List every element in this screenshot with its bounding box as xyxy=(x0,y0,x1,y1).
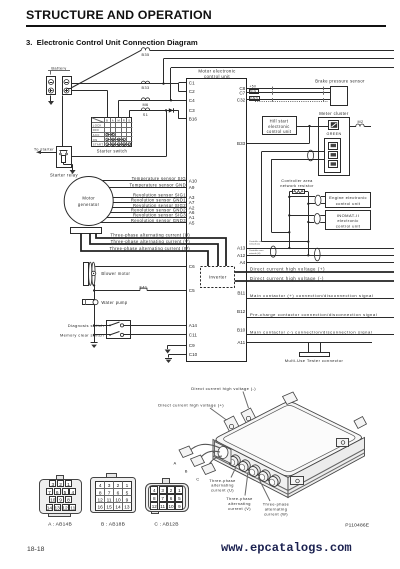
svg-text:A10: A10 xyxy=(189,179,198,184)
svg-text:9: 9 xyxy=(178,504,181,509)
svg-text:A12: A12 xyxy=(237,253,246,258)
svg-text:14: 14 xyxy=(47,506,53,512)
svg-text:F41: F41 xyxy=(140,285,148,290)
svg-text:control unit: control unit xyxy=(336,201,361,206)
svg-text:9: 9 xyxy=(59,498,62,504)
svg-text:Multi-Use Tester connector: Multi-Use Tester connector xyxy=(285,358,344,363)
svg-text:Blower motor: Blower motor xyxy=(101,271,130,276)
svg-text:generator: generator xyxy=(78,202,100,207)
svg-text:INOMAT-II: INOMAT-II xyxy=(337,213,359,218)
svg-text:7: 7 xyxy=(108,490,111,496)
svg-text:B10: B10 xyxy=(237,328,246,333)
svg-text:Starter relay: Starter relay xyxy=(50,172,79,177)
svg-text:S: S xyxy=(128,118,130,122)
svg-text:Controller area: Controller area xyxy=(249,240,264,243)
svg-text:Water pump: Water pump xyxy=(101,300,127,305)
svg-text:5: 5 xyxy=(126,490,129,496)
svg-text:R: R xyxy=(123,118,125,122)
svg-text:control unit: control unit xyxy=(267,129,292,134)
svg-text:C5: C5 xyxy=(189,288,195,293)
svg-text:OFF: OFF xyxy=(93,128,100,132)
svg-text:7: 7 xyxy=(161,496,164,501)
svg-text:13: 13 xyxy=(124,505,130,511)
svg-text:current (U): current (U) xyxy=(211,487,234,492)
svg-text:SIG: SIG xyxy=(250,90,257,94)
svg-text:Temperature sensor SIG: Temperature sensor SIG xyxy=(132,176,186,181)
svg-text:A9: A9 xyxy=(189,185,195,190)
svg-text:2: 2 xyxy=(59,482,62,488)
svg-text:A4: A4 xyxy=(240,260,246,265)
svg-text:4: 4 xyxy=(153,488,156,493)
svg-text:Memory clear switch: Memory clear switch xyxy=(60,333,104,338)
svg-text:9: 9 xyxy=(126,497,129,503)
svg-text:control unit: control unit xyxy=(336,224,361,229)
svg-text:C3: C3 xyxy=(189,108,195,113)
svg-text:4: 4 xyxy=(99,483,102,489)
svg-text:8: 8 xyxy=(153,496,156,501)
svg-text:P110486E: P110486E xyxy=(345,523,370,529)
svg-text:Direct current high voltage (-: Direct current high voltage (-) xyxy=(250,276,324,281)
svg-text:Meter cluster: Meter cluster xyxy=(319,111,349,116)
svg-text:M2: M2 xyxy=(358,120,364,124)
svg-text:11: 11 xyxy=(70,506,75,512)
svg-text:11: 11 xyxy=(107,497,112,503)
svg-text:B33: B33 xyxy=(142,86,150,90)
svg-text:B33: B33 xyxy=(237,141,246,146)
svg-text:Battery: Battery xyxy=(51,66,66,71)
svg-text:current (W): current (W) xyxy=(264,511,288,516)
svg-text:B : AB18B: B : AB18B xyxy=(101,522,125,528)
svg-text:Revolution sensor GND3: Revolution sensor GND3 xyxy=(131,218,186,223)
svg-text:Main contactor (-) connection/: Main contactor (-) connection/disconnect… xyxy=(250,330,372,335)
svg-text:C9: C9 xyxy=(189,343,195,348)
svg-text:Controller area: Controller area xyxy=(281,179,313,183)
svg-text:6: 6 xyxy=(170,496,173,501)
svg-text:Motor: Motor xyxy=(82,195,95,200)
svg-text:control unit: control unit xyxy=(204,74,230,79)
svg-text:B: B xyxy=(185,469,188,474)
svg-text:B: B xyxy=(106,118,108,122)
svg-text:ACC: ACC xyxy=(93,133,100,137)
svg-text:2: 2 xyxy=(117,483,120,489)
svg-text:A : AB14B: A : AB14B xyxy=(48,522,72,528)
svg-text:Temperature sensor GND: Temperature sensor GND xyxy=(129,182,186,187)
svg-text:A5: A5 xyxy=(189,220,195,225)
svg-text:12: 12 xyxy=(152,504,158,509)
svg-text:C32: C32 xyxy=(237,98,246,103)
svg-text:A14: A14 xyxy=(189,323,198,328)
svg-text:3: 3 xyxy=(161,488,164,493)
svg-text:C1: C1 xyxy=(189,81,195,86)
svg-text:7: 7 xyxy=(48,490,51,496)
svg-text:B11: B11 xyxy=(237,291,245,296)
svg-text:3: 3 xyxy=(51,482,54,488)
svg-text:Engine electronic: Engine electronic xyxy=(329,195,367,200)
svg-text:network resistor: network resistor xyxy=(280,184,314,188)
svg-text:GND: GND xyxy=(250,97,259,101)
svg-text:START: START xyxy=(93,143,104,147)
svg-text:network (H): network (H) xyxy=(249,252,261,255)
svg-text:Three-phase alternating curren: Three-phase alternating current (V) xyxy=(111,239,191,244)
svg-text:6: 6 xyxy=(117,490,120,496)
svg-text:A: A xyxy=(174,461,177,466)
svg-text:Inverter: Inverter xyxy=(209,275,227,280)
svg-text:S1: S1 xyxy=(143,113,148,117)
svg-text:10: 10 xyxy=(168,504,174,509)
svg-text:Controller area: Controller area xyxy=(249,249,264,252)
svg-text:1: 1 xyxy=(126,483,129,489)
svg-text:C10: C10 xyxy=(189,352,198,357)
svg-text:C4: C4 xyxy=(189,98,195,103)
svg-text:To starter: To starter xyxy=(34,147,55,152)
svg-text:C7: C7 xyxy=(239,91,245,96)
svg-text:LOCK: LOCK xyxy=(93,123,102,127)
svg-text:Pre-charge contactor connectio: Pre-charge contactor connection/disconne… xyxy=(250,312,377,317)
svg-text:8: 8 xyxy=(99,490,102,496)
svg-text:B12: B12 xyxy=(237,309,246,314)
svg-text:GREEN: GREEN xyxy=(326,132,341,136)
svg-text:5: 5 xyxy=(64,490,67,496)
svg-text:Direct current high voltage (+: Direct current high voltage (+) xyxy=(250,267,325,272)
svg-text:Direct current high voltage (-: Direct current high voltage (-) xyxy=(191,386,256,391)
svg-text:Starter switch: Starter switch xyxy=(97,148,128,153)
svg-text:C: C xyxy=(196,477,199,482)
svg-text:B35: B35 xyxy=(142,53,150,57)
svg-text:5: 5 xyxy=(178,496,181,501)
svg-text:1: 1 xyxy=(178,488,181,493)
svg-text:16: 16 xyxy=(97,505,103,511)
svg-text:ON: ON xyxy=(93,138,98,142)
svg-text:A11: A11 xyxy=(237,340,245,345)
svg-text:network (L): network (L) xyxy=(249,243,260,246)
svg-text:current (V): current (V) xyxy=(228,506,251,511)
svg-text:10: 10 xyxy=(50,498,56,504)
svg-text:13: 13 xyxy=(55,506,61,512)
svg-text:M6: M6 xyxy=(142,103,148,107)
svg-text:electronic: electronic xyxy=(337,218,358,223)
svg-text:6: 6 xyxy=(56,490,59,496)
svg-text:C11: C11 xyxy=(189,333,198,338)
svg-text:8: 8 xyxy=(67,498,70,504)
svg-text:A: A xyxy=(112,118,114,122)
svg-text:10: 10 xyxy=(115,497,121,503)
svg-text:+5V: +5V xyxy=(250,84,257,88)
svg-text:Motor electronic: Motor electronic xyxy=(198,69,236,74)
svg-text:Three-phase alternating curren: Three-phase alternating current (U) xyxy=(110,232,190,237)
svg-text:12: 12 xyxy=(62,506,68,512)
svg-text:14: 14 xyxy=(115,505,121,511)
svg-text:Three-phase alternating curren: Three-phase alternating current (W) xyxy=(109,246,190,251)
svg-text:11: 11 xyxy=(160,504,165,509)
svg-text:3: 3 xyxy=(108,483,111,489)
svg-text:M: M xyxy=(118,118,121,122)
svg-text:B16: B16 xyxy=(189,116,198,121)
svg-text:A13: A13 xyxy=(237,246,246,251)
svg-text:Main contactor (+) connection/: Main contactor (+) connection/disconnect… xyxy=(250,293,374,298)
svg-text:Brake pressure sensor: Brake pressure sensor xyxy=(315,79,365,84)
svg-text:15: 15 xyxy=(106,505,112,511)
svg-text:Direct current high voltage (+: Direct current high voltage (+) xyxy=(158,403,224,408)
svg-text:C : AB12B: C : AB12B xyxy=(154,522,178,528)
svg-text:electronic: electronic xyxy=(268,124,290,129)
svg-text:4: 4 xyxy=(71,490,74,496)
svg-text:C2: C2 xyxy=(189,89,195,94)
svg-text:C6: C6 xyxy=(189,264,195,269)
svg-text:2: 2 xyxy=(170,488,173,493)
svg-text:Hill start: Hill start xyxy=(270,119,289,124)
svg-text:12: 12 xyxy=(97,497,103,503)
svg-text:1: 1 xyxy=(67,482,70,488)
